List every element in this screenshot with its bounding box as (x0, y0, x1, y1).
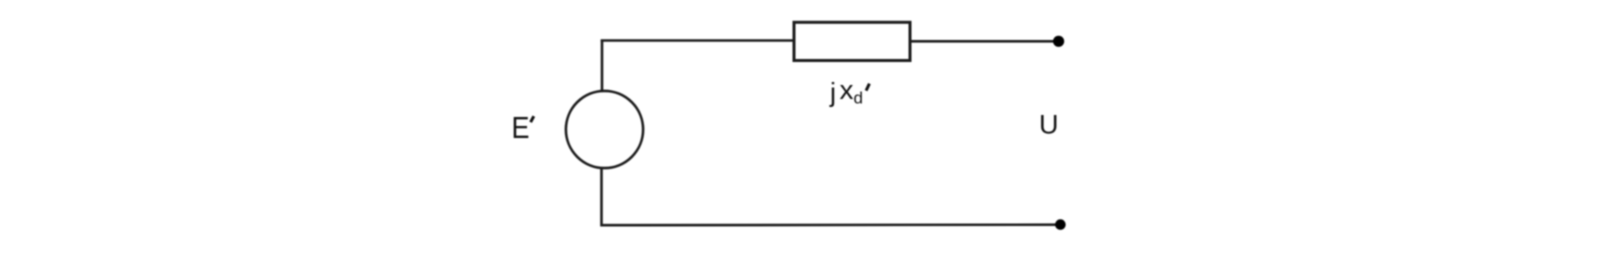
svg-text:E: E (512, 111, 530, 145)
terminal node top-right (1053, 36, 1064, 47)
label E prime tick (531, 116, 534, 122)
svg-text:U: U (1039, 110, 1059, 140)
voltage source E' (circle) (566, 91, 643, 168)
svg-text:d: d (854, 89, 863, 108)
wire vertical lower (source bottom to bottom corner) (600, 168, 603, 227)
wire top-right horizontal (reactance to terminal) (910, 40, 1057, 43)
terminal node bottom-right (1055, 219, 1066, 230)
wire bottom horizontal (source to terminal) (601, 223, 1059, 226)
reactance jxd' (rectangle) (794, 22, 910, 60)
wire vertical upper (top corner to source top) (601, 40, 604, 92)
svg-text:x: x (840, 75, 855, 105)
wire top-left horizontal (source to reactance) (601, 39, 794, 42)
svg-text:j: j (829, 78, 836, 108)
